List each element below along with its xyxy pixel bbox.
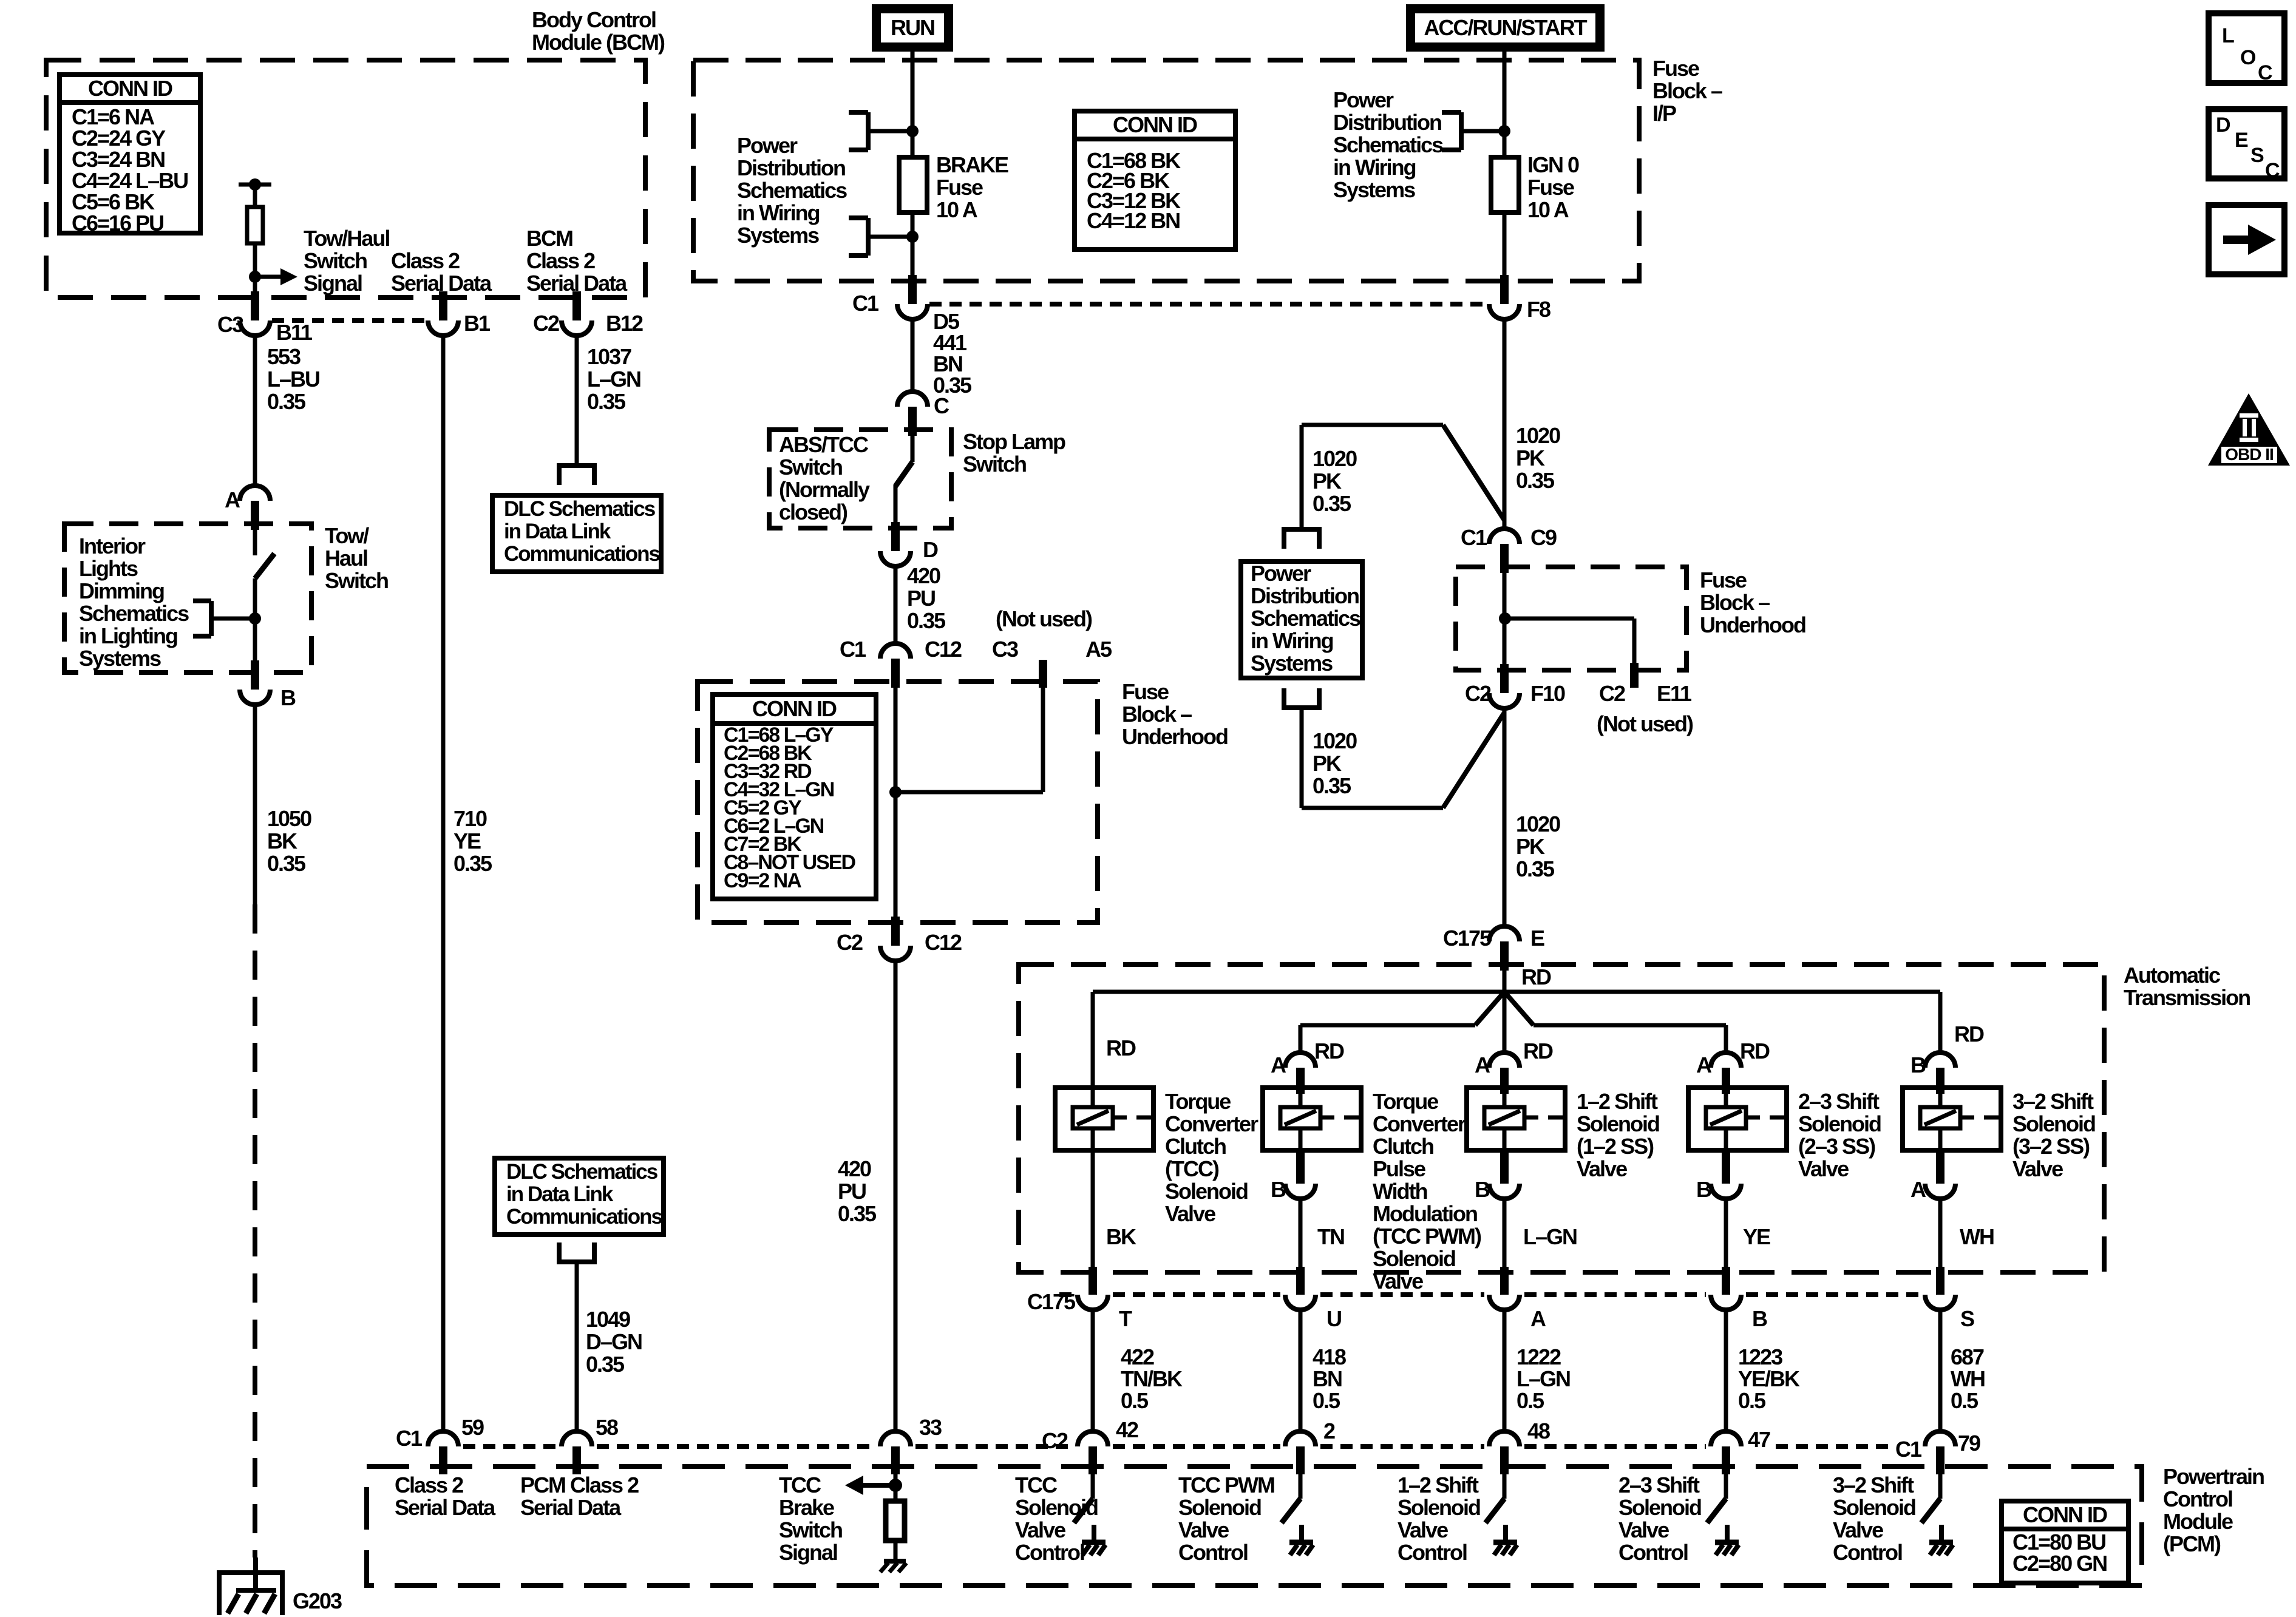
svg-text:C9=2 NA: C9=2 NA (724, 869, 801, 892)
svg-text:2: 2 (1323, 1419, 1335, 1443)
svg-text:Solenoid: Solenoid (1165, 1179, 1248, 1204)
svg-text:A: A (1696, 1053, 1712, 1077)
svg-text:TCC PWM: TCC PWM (1178, 1473, 1274, 1497)
svg-text:Clutch: Clutch (1165, 1134, 1226, 1159)
svg-text:L–GN: L–GN (1517, 1366, 1570, 1391)
svg-text:Underhood: Underhood (1700, 612, 1805, 637)
svg-text:Solenoid: Solenoid (1178, 1495, 1261, 1520)
svg-text:YE: YE (453, 829, 481, 853)
svg-text:Torque: Torque (1165, 1089, 1231, 1114)
svg-text:Communications: Communications (504, 542, 660, 566)
svg-text:58: 58 (596, 1415, 618, 1440)
svg-text:1–2 Shift: 1–2 Shift (1398, 1473, 1479, 1497)
svg-text:1222: 1222 (1517, 1344, 1561, 1369)
svg-text:Class 2: Class 2 (395, 1473, 463, 1497)
svg-text:RUN: RUN (891, 15, 934, 40)
svg-text:Systems: Systems (1333, 177, 1415, 202)
svg-text:C4=12 BN: C4=12 BN (1087, 208, 1180, 233)
svg-text:in Wiring: in Wiring (1251, 628, 1333, 653)
svg-text:1050: 1050 (267, 806, 311, 831)
svg-text:1049: 1049 (586, 1307, 630, 1332)
svg-text:PK: PK (1516, 446, 1545, 470)
svg-text:Valve: Valve (1015, 1517, 1065, 1542)
svg-text:Solenoid: Solenoid (1618, 1495, 1701, 1520)
svg-text:Body Control: Body Control (532, 7, 656, 32)
svg-text:OBD II: OBD II (2225, 445, 2274, 464)
svg-text:BK: BK (1106, 1224, 1136, 1249)
svg-text:(Not used): (Not used) (1597, 711, 1693, 736)
svg-text:42: 42 (1116, 1417, 1138, 1442)
svg-text:79: 79 (1958, 1431, 1980, 1456)
svg-text:E11: E11 (1657, 681, 1692, 706)
svg-text:PU: PU (838, 1179, 866, 1204)
svg-text:0.35: 0.35 (1516, 468, 1555, 493)
svg-text:1020: 1020 (1516, 812, 1560, 836)
svg-text:U: U (1326, 1306, 1341, 1331)
svg-text:CONN ID: CONN ID (2023, 1502, 2107, 1527)
svg-text:in Lighting: in Lighting (79, 623, 177, 648)
svg-text:Solenoid: Solenoid (1577, 1111, 1659, 1136)
svg-text:in Data Link: in Data Link (506, 1182, 614, 1206)
svg-text:Pulse: Pulse (1373, 1156, 1425, 1181)
svg-text:RD: RD (1521, 964, 1551, 989)
svg-text:(Normally: (Normally (779, 477, 870, 502)
svg-text:B: B (1696, 1177, 1711, 1202)
svg-text:PK: PK (1516, 834, 1545, 859)
svg-text:C2=80 GN: C2=80 GN (2012, 1551, 2107, 1576)
svg-text:Solenoid: Solenoid (1798, 1111, 1881, 1136)
svg-text:in Wiring: in Wiring (737, 200, 820, 225)
svg-text:(PCM): (PCM) (2163, 1531, 2221, 1556)
svg-text:Fuse: Fuse (1122, 679, 1169, 704)
svg-text:Valve: Valve (1833, 1517, 1883, 1542)
svg-text:Valve: Valve (1165, 1201, 1215, 1226)
svg-text:Width: Width (1373, 1179, 1427, 1204)
svg-text:in Data Link: in Data Link (504, 520, 611, 543)
svg-text:(Not used): (Not used) (996, 606, 1092, 631)
svg-text:D: D (2216, 114, 2230, 137)
svg-text:O: O (2240, 46, 2256, 69)
svg-text:Control: Control (1618, 1540, 1688, 1565)
svg-text:(3–2 SS): (3–2 SS) (2012, 1134, 2090, 1159)
svg-text:0.35: 0.35 (587, 389, 626, 414)
svg-text:Dimming: Dimming (79, 578, 164, 603)
svg-text:Serial Data: Serial Data (520, 1495, 622, 1520)
svg-text:Control: Control (1015, 1540, 1084, 1565)
svg-text:C6=16 PU: C6=16 PU (72, 211, 163, 236)
svg-text:D–GN: D–GN (586, 1329, 642, 1354)
svg-text:0.5: 0.5 (1517, 1388, 1544, 1413)
svg-text:BK: BK (267, 829, 297, 853)
svg-text:Signal: Signal (779, 1540, 837, 1565)
svg-text:C2: C2 (837, 930, 863, 955)
svg-text:0.35: 0.35 (267, 851, 306, 876)
svg-text:Valve: Valve (1178, 1517, 1229, 1542)
svg-text:Transmission: Transmission (2124, 985, 2250, 1010)
svg-text:0.35: 0.35 (838, 1201, 877, 1226)
svg-text:Torque: Torque (1373, 1089, 1438, 1114)
svg-text:B12: B12 (606, 311, 643, 336)
svg-text:Module: Module (2163, 1509, 2233, 1534)
svg-text:L: L (2222, 24, 2234, 47)
svg-text:Distribution: Distribution (1333, 110, 1441, 135)
svg-text:E: E (1530, 926, 1544, 951)
svg-text:3–2 Shift: 3–2 Shift (1833, 1473, 1914, 1497)
svg-text:C2: C2 (1465, 681, 1491, 706)
svg-text:Valve: Valve (1373, 1269, 1423, 1293)
svg-text:(TCC PWM): (TCC PWM) (1373, 1224, 1481, 1249)
svg-text:B: B (280, 685, 296, 710)
svg-text:Fuse: Fuse (936, 175, 983, 200)
svg-text:C1: C1 (396, 1426, 423, 1451)
svg-text:L–GN: L–GN (587, 367, 640, 392)
svg-text:2–3 Shift: 2–3 Shift (1618, 1473, 1700, 1497)
svg-text:3–2 Shift: 3–2 Shift (2012, 1089, 2094, 1114)
svg-text:1037: 1037 (587, 344, 631, 369)
svg-text:C1: C1 (1895, 1437, 1922, 1462)
svg-text:C3: C3 (992, 637, 1018, 662)
svg-text:A: A (1271, 1053, 1286, 1077)
svg-text:Communications: Communications (506, 1205, 662, 1229)
svg-text:Schematics: Schematics (737, 178, 847, 203)
svg-text:Solenoid: Solenoid (1398, 1495, 1480, 1520)
svg-text:TN/BK: TN/BK (1121, 1366, 1183, 1391)
svg-text:Solenoid: Solenoid (2012, 1111, 2095, 1136)
svg-text:S: S (1960, 1306, 1974, 1331)
svg-text:C2: C2 (1599, 681, 1625, 706)
svg-text:B: B (1271, 1177, 1286, 1202)
svg-text:WH: WH (1951, 1366, 1985, 1391)
svg-text:C: C (934, 393, 949, 418)
svg-text:0.5: 0.5 (1121, 1388, 1149, 1413)
svg-text:Converter: Converter (1373, 1111, 1466, 1136)
svg-text:59: 59 (461, 1415, 484, 1440)
svg-text:Interior: Interior (79, 534, 146, 558)
svg-text:RD: RD (1314, 1039, 1344, 1063)
svg-text:47: 47 (1748, 1427, 1770, 1452)
svg-text:687: 687 (1951, 1344, 1984, 1369)
svg-text:CONN ID: CONN ID (88, 76, 172, 101)
svg-text:Control: Control (2163, 1486, 2232, 1511)
svg-text:Clutch: Clutch (1373, 1134, 1433, 1159)
svg-text:Switch: Switch (779, 455, 842, 480)
svg-text:I/P: I/P (1652, 101, 1676, 126)
svg-text:0.35: 0.35 (1313, 491, 1351, 516)
svg-text:Control: Control (1833, 1540, 1902, 1565)
svg-text:Stop Lamp: Stop Lamp (963, 429, 1065, 454)
svg-text:ABS/TCC: ABS/TCC (779, 432, 869, 457)
svg-text:B: B (1475, 1177, 1490, 1202)
svg-text:Underhood: Underhood (1122, 724, 1228, 749)
svg-text:Class 2: Class 2 (391, 248, 460, 273)
svg-text:Valve: Valve (2012, 1156, 2063, 1181)
svg-text:YE/BK: YE/BK (1738, 1366, 1800, 1391)
svg-text:422: 422 (1121, 1344, 1154, 1369)
svg-text:Block –: Block – (1122, 702, 1192, 727)
svg-text:TN: TN (1317, 1224, 1344, 1249)
svg-text:C12: C12 (925, 930, 962, 955)
svg-text:1020: 1020 (1313, 446, 1357, 471)
svg-text:Power: Power (1251, 561, 1311, 586)
svg-text:PK: PK (1313, 469, 1342, 493)
svg-text:B1: B1 (464, 311, 491, 336)
svg-text:0.5: 0.5 (1951, 1388, 1978, 1413)
svg-text:Modulation: Modulation (1373, 1201, 1477, 1226)
svg-text:F10: F10 (1530, 681, 1565, 706)
svg-text:RD: RD (1954, 1022, 1984, 1046)
svg-text:Switch: Switch (325, 568, 388, 593)
svg-text:Block –: Block – (1652, 78, 1722, 103)
svg-text:Fuse: Fuse (1527, 175, 1574, 200)
svg-text:PK: PK (1313, 751, 1342, 776)
svg-text:0.5: 0.5 (1738, 1388, 1766, 1413)
svg-text:0.5: 0.5 (1313, 1388, 1340, 1413)
svg-text:PU: PU (907, 586, 935, 611)
svg-text:Tow/Haul: Tow/Haul (304, 226, 389, 251)
svg-text:E: E (2235, 129, 2248, 152)
svg-text:Serial Data: Serial Data (395, 1495, 496, 1520)
svg-text:C3: C3 (217, 312, 243, 337)
svg-text:L–GN: L–GN (1523, 1224, 1577, 1249)
svg-text:PCM Class 2: PCM Class 2 (520, 1473, 639, 1497)
svg-text:(1–2 SS): (1–2 SS) (1577, 1134, 1654, 1159)
svg-text:Control: Control (1178, 1540, 1248, 1565)
svg-text:RD: RD (1740, 1039, 1770, 1063)
svg-text:Lights: Lights (79, 556, 138, 581)
svg-text:TCC: TCC (779, 1473, 821, 1497)
svg-text:Brake: Brake (779, 1495, 834, 1520)
svg-text:0.35: 0.35 (267, 389, 306, 414)
svg-text:ACC/RUN/START: ACC/RUN/START (1424, 15, 1587, 40)
svg-text:YE: YE (1743, 1224, 1770, 1249)
svg-text:0.35: 0.35 (453, 851, 492, 876)
svg-text:Valve: Valve (1798, 1156, 1849, 1181)
svg-text:Schematics: Schematics (79, 601, 189, 626)
svg-text:TCC: TCC (1015, 1473, 1058, 1497)
svg-text:C: C (2258, 61, 2272, 84)
svg-text:DLC Schematics: DLC Schematics (506, 1160, 658, 1184)
svg-text:1020: 1020 (1516, 423, 1560, 448)
svg-text:C175: C175 (1027, 1289, 1076, 1314)
svg-text:Schematics: Schematics (1333, 132, 1443, 157)
svg-text:Systems: Systems (79, 646, 161, 671)
svg-text:F8: F8 (1527, 297, 1550, 322)
svg-text:Distribution: Distribution (1251, 583, 1359, 608)
svg-text:1020: 1020 (1313, 728, 1357, 753)
svg-text:(TCC): (TCC) (1165, 1156, 1219, 1181)
svg-text:Distribution: Distribution (737, 155, 845, 180)
svg-text:2–3 Shift: 2–3 Shift (1798, 1089, 1880, 1114)
svg-text:T: T (1119, 1306, 1132, 1331)
svg-text:Powertrain: Powertrain (2163, 1464, 2264, 1489)
svg-text:closed): closed) (779, 500, 847, 524)
svg-text:BCM: BCM (526, 226, 572, 251)
svg-text:Control: Control (1398, 1540, 1467, 1565)
svg-text:B: B (1911, 1053, 1926, 1077)
svg-text:Solenoid: Solenoid (1373, 1246, 1455, 1271)
svg-text:Power: Power (737, 133, 798, 158)
svg-text:RD: RD (1106, 1036, 1136, 1060)
svg-text:Systems: Systems (737, 223, 819, 248)
svg-text:Switch: Switch (963, 452, 1026, 476)
svg-text:(2–3 SS): (2–3 SS) (1798, 1134, 1875, 1159)
svg-text:Class 2: Class 2 (526, 248, 595, 273)
svg-text:IGN 0: IGN 0 (1527, 152, 1579, 177)
svg-text:Tow/: Tow/ (325, 523, 369, 548)
svg-text:710: 710 (453, 806, 487, 831)
svg-text:L–BU: L–BU (267, 367, 319, 392)
svg-text:B: B (1752, 1306, 1767, 1331)
svg-text:Block –: Block – (1700, 590, 1770, 615)
svg-text:Valve: Valve (1577, 1156, 1627, 1181)
svg-text:RD: RD (1523, 1039, 1553, 1063)
svg-text:Module (BCM): Module (BCM) (532, 30, 665, 55)
svg-text:B11: B11 (276, 320, 313, 345)
svg-text:in Wiring: in Wiring (1333, 155, 1416, 180)
svg-text:A: A (225, 487, 240, 512)
svg-text:1–2 Shift: 1–2 Shift (1577, 1089, 1658, 1114)
svg-text:Switch: Switch (779, 1517, 842, 1542)
svg-text:C1: C1 (1461, 525, 1487, 550)
svg-text:C175: C175 (1443, 926, 1492, 951)
svg-text:C: C (2265, 159, 2280, 182)
svg-text:Valve: Valve (1398, 1517, 1448, 1542)
svg-text:420: 420 (907, 563, 940, 588)
svg-text:WH: WH (1960, 1224, 1994, 1249)
svg-text:Haul: Haul (325, 546, 367, 571)
svg-text:Converter: Converter (1165, 1111, 1258, 1136)
svg-text:BRAKE: BRAKE (936, 152, 1008, 177)
svg-text:Solenoid: Solenoid (1833, 1495, 1915, 1520)
svg-text:418: 418 (1313, 1344, 1346, 1369)
svg-text:C2: C2 (1042, 1428, 1068, 1453)
svg-text:CONN ID: CONN ID (752, 696, 837, 721)
svg-text:A: A (1475, 1053, 1490, 1077)
svg-text:A: A (1911, 1177, 1926, 1202)
svg-text:Valve: Valve (1618, 1517, 1669, 1542)
svg-text:A5: A5 (1085, 637, 1112, 662)
svg-text:Automatic: Automatic (2124, 963, 2220, 988)
svg-text:33: 33 (919, 1415, 942, 1440)
svg-text:0.35: 0.35 (586, 1352, 625, 1377)
svg-text:0.35: 0.35 (1516, 856, 1555, 881)
svg-text:C9: C9 (1530, 525, 1557, 550)
svg-text:420: 420 (838, 1156, 871, 1181)
svg-text:Systems: Systems (1251, 651, 1333, 676)
svg-text:A: A (1530, 1306, 1546, 1331)
svg-text:DLC Schematics: DLC Schematics (504, 497, 656, 521)
svg-text:Power: Power (1333, 87, 1394, 112)
svg-text:C1: C1 (852, 291, 879, 316)
svg-text:553: 553 (267, 344, 301, 369)
svg-text:10 A: 10 A (936, 197, 978, 222)
svg-text:Schematics: Schematics (1251, 606, 1360, 631)
svg-text:Signal: Signal (304, 271, 362, 296)
svg-text:Fuse: Fuse (1700, 568, 1747, 592)
svg-text:G203: G203 (293, 1588, 342, 1613)
svg-text:0.35: 0.35 (1313, 773, 1351, 798)
svg-text:Switch: Switch (304, 248, 367, 273)
svg-text:C2: C2 (533, 311, 559, 336)
svg-text:BN: BN (1313, 1366, 1342, 1391)
svg-text:CONN ID: CONN ID (1113, 112, 1197, 137)
svg-text:Fuse: Fuse (1652, 56, 1699, 81)
svg-text:C1: C1 (840, 637, 866, 662)
svg-text:1223: 1223 (1738, 1344, 1782, 1369)
svg-text:D: D (923, 537, 938, 562)
svg-text:0.35: 0.35 (907, 608, 946, 633)
svg-text:10 A: 10 A (1527, 197, 1569, 222)
svg-text:S: S (2250, 144, 2264, 167)
svg-text:48: 48 (1527, 1419, 1550, 1443)
svg-text:C12: C12 (925, 637, 962, 662)
